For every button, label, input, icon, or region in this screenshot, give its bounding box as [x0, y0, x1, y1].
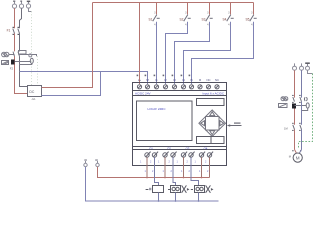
- svg-text:2: 2: [205, 161, 207, 164]
- contactor contact neutral: [300, 97, 302, 102]
- PLC nav arrow right: [220, 121, 224, 126]
- PLC output terminals: [145, 152, 213, 158]
- PLC U1 LOGO! module: [133, 78, 242, 173]
- N label speck: [20, 1, 22, 2]
- terminal X1:N: [19, 2, 23, 9]
- wire fuse to coil top: [15, 61, 31, 63]
- wire phase right lower: [294, 109, 296, 125]
- svg-text:NC: NC: [215, 78, 219, 82]
- svg-text:1: 1: [158, 161, 160, 164]
- PLC separator line 2: [133, 95, 227, 97]
- PLC display slot: [197, 99, 225, 106]
- svg-text:NC: NC: [206, 78, 210, 82]
- PLC top terminal labels: [138, 78, 219, 82]
- power supply G1 box: [28, 86, 42, 97]
- svg-text:1: 1: [163, 170, 165, 173]
- wire S4 to I4: [184, 22, 231, 84]
- PLC nav arrow left: [201, 121, 205, 126]
- pointer arrow at right: [227, 122, 242, 126]
- PLC separator line 1: [133, 90, 227, 92]
- wire PE right jog: [308, 70, 313, 73]
- wire Q4 pin1: [201, 157, 203, 177]
- power supply text: [29, 90, 34, 94]
- svg-text:2: 2: [152, 170, 154, 173]
- coil K1 ellipse: [30, 58, 33, 63]
- svg-text:I5: I5: [190, 78, 193, 82]
- svg-text:1: 1: [195, 161, 197, 164]
- PLC separator line 3: [133, 146, 227, 148]
- switch S1: [149, 3, 160, 27]
- aux icon circles: [281, 97, 288, 101]
- svg-text:1: 1: [145, 170, 147, 173]
- PE label right: [305, 62, 310, 64]
- wire Q1 pin2 to K1: [155, 157, 159, 185]
- wire coil bridge bottom: [302, 108, 308, 110]
- fuse F2 body: [11, 60, 15, 65]
- wire Q4 pin2 stub: [209, 157, 211, 177]
- wire S3 to I3: [175, 22, 210, 84]
- svg-text:2: 2: [150, 161, 152, 164]
- terminal X1:PE: [26, 2, 30, 9]
- tap terminal label specks: [84, 159, 97, 160]
- switch contact on L: [13, 52, 15, 57]
- wire N upper: [20, 8, 22, 28]
- wire phase right upper: [294, 70, 296, 97]
- switch contact on N: [18, 52, 20, 57]
- coil K ellipse right: [306, 103, 309, 108]
- wire Q2 pin2 to Y1: [173, 157, 176, 185]
- svg-text:4: 4: [154, 23, 156, 26]
- label -K1: [146, 188, 152, 190]
- junction Y2 bus: [198, 200, 200, 202]
- PLC rating text left: [135, 92, 151, 96]
- wire neutral right upper: [301, 70, 303, 97]
- wire coil bridge top: [295, 105, 307, 107]
- wire L+ drop to PLC: [139, 3, 141, 85]
- wire into motor right: [299, 150, 301, 154]
- svg-text:I3: I3: [173, 78, 176, 82]
- contactor contact phase: [293, 97, 295, 102]
- bus M output: [86, 167, 219, 201]
- PLC output labels: [149, 146, 208, 150]
- motor label: [289, 154, 291, 158]
- wire K1 to M bus: [158, 193, 160, 202]
- svg-text:1M: 1M: [284, 126, 288, 130]
- breaker contact L: [13, 29, 15, 34]
- svg-text:S3: S3: [202, 18, 206, 22]
- contact 1M1 neutral: [300, 125, 302, 130]
- svg-text:-G1: -G1: [31, 97, 36, 101]
- PE dashed 2: [37, 56, 39, 85]
- label -Y2: [191, 189, 193, 191]
- PLC outer box: [133, 83, 227, 166]
- svg-text:S5: S5: [246, 18, 250, 22]
- svg-text:M: M: [296, 155, 300, 160]
- terminal 24V tap L+: [96, 161, 99, 167]
- junction Q1 pin1: [146, 177, 148, 179]
- PE dashed down: [31, 12, 33, 86]
- overload bracket: [304, 97, 307, 101]
- wire neutral right lower: [301, 102, 303, 125]
- wire M from PSU: [42, 72, 101, 96]
- wire M rail: [20, 72, 148, 85]
- svg-text:S1: S1: [149, 18, 153, 22]
- right branch pin specks: [292, 95, 301, 151]
- valve coil Y1: [171, 186, 181, 193]
- PE dashed right: [299, 74, 313, 149]
- PLC separator line 4: [133, 149, 227, 151]
- svg-text:1: 1: [199, 170, 201, 173]
- switch S5: [246, 3, 257, 27]
- PLC nav pad square: [206, 117, 220, 131]
- PLC nav arrow up: [210, 112, 215, 116]
- svg-text:3: 3: [185, 12, 187, 15]
- svg-text:4: 4: [228, 23, 230, 26]
- wire Q3 pin2 to Y2: [191, 157, 199, 185]
- PE label: [27, 1, 30, 2]
- wire PE jog: [29, 8, 32, 11]
- PLC nav arrow down: [210, 131, 215, 135]
- PLC screen: [137, 101, 193, 141]
- junction Q4 pin1: [201, 177, 203, 179]
- PLC bottom slot: [197, 137, 225, 144]
- valve coil Y2: [195, 186, 205, 193]
- wire L1 lower: [14, 33, 16, 51]
- terminal X1:L1: [12, 2, 16, 9]
- svg-text:1: 1: [177, 161, 179, 164]
- wire S5 to I5: [192, 22, 254, 84]
- PLC nav pad diamond: [199, 110, 226, 136]
- motor M1: [293, 153, 302, 162]
- svg-text:2: 2: [207, 170, 209, 173]
- svg-text:S2: S2: [180, 18, 184, 22]
- device label box right: [279, 104, 288, 108]
- label -Y1: [168, 189, 170, 191]
- switch body rect: [19, 51, 27, 55]
- svg-text:2: 2: [187, 161, 189, 164]
- svg-text:2: 2: [169, 161, 171, 164]
- svg-text:M: M: [146, 78, 149, 82]
- valve actuator Y1: [182, 185, 190, 192]
- valve actuator Y2: [206, 185, 214, 192]
- wire N lower: [19, 33, 21, 51]
- svg-text:DC: DC: [29, 90, 34, 94]
- wire socket to L: [9, 54, 15, 56]
- breaker label: [7, 28, 11, 32]
- PLC type text: [148, 107, 167, 111]
- junction K1 bus: [158, 200, 160, 202]
- fuse right body: [292, 104, 296, 109]
- coil K1: [153, 186, 164, 193]
- power supply label: [31, 97, 36, 101]
- svg-text:4: 4: [251, 23, 253, 26]
- svg-text:2: 2: [189, 170, 191, 173]
- svg-text:I6: I6: [199, 78, 202, 82]
- contact 1M1 phase: [293, 125, 295, 130]
- switch S4: [223, 3, 234, 27]
- wire L1 upper: [14, 8, 16, 28]
- fuse label: [10, 67, 14, 71]
- wire S1 to I1: [156, 22, 158, 84]
- breaker pin specks: [13, 27, 20, 35]
- terminal X3:PE: [306, 63, 310, 70]
- bus +24V top: [93, 2, 254, 4]
- svg-text:3: 3: [251, 12, 253, 15]
- wire +24V from PSU: [42, 3, 93, 88]
- svg-text:4: 4: [207, 23, 209, 26]
- wire into motor left: [295, 150, 297, 154]
- terminal X3:2: [300, 63, 304, 70]
- PE branch circle: [29, 54, 32, 57]
- svg-text:1: 1: [140, 161, 142, 164]
- svg-text:4: 4: [185, 23, 187, 26]
- svg-text:1: 1: [181, 170, 183, 173]
- svg-text:LOGO! 24RC: LOGO! 24RC: [148, 107, 167, 111]
- PLC input terminals: [137, 85, 219, 89]
- switch S3: [202, 3, 213, 27]
- wire Y1 to M bus: [175, 193, 177, 202]
- wire row1 right: [20, 55, 37, 57]
- wire coil bottom: [20, 63, 32, 64]
- svg-text:I1: I1: [155, 78, 158, 82]
- svg-text:F1: F1: [7, 28, 11, 32]
- PLC rating text right: [202, 92, 224, 96]
- wire Q2 pin1: [164, 157, 166, 177]
- PLC output pin labels outer: [145, 170, 210, 173]
- junction Y1 bus: [175, 200, 177, 202]
- socket outlet X2: [2, 52, 9, 57]
- svg-text:I4: I4: [182, 78, 185, 82]
- L1 label speck: [13, 1, 15, 2]
- bus L+ output: [98, 167, 210, 178]
- svg-text:2: 2: [171, 170, 173, 173]
- PLC output pin labels inner: [140, 161, 207, 164]
- svg-text:M: M: [289, 154, 291, 158]
- junction Q2 pin1: [164, 177, 166, 179]
- PLC bottom slot divider: [210, 137, 212, 144]
- terminal X3:1: [293, 63, 297, 70]
- svg-text:3: 3: [228, 12, 230, 15]
- wire pin specks at PLC inputs: [137, 75, 191, 77]
- svg-text:S4: S4: [223, 18, 227, 22]
- svg-text:3: 3: [207, 12, 209, 15]
- wire Q3 pin1: [183, 157, 185, 177]
- svg-text:3: 3: [154, 12, 156, 15]
- wire Y2 to M bus: [198, 193, 200, 202]
- junction Q3 pin1: [183, 177, 185, 179]
- switch S2: [180, 3, 191, 27]
- label 1M1: [284, 126, 288, 130]
- wire S2 to I2: [166, 22, 188, 84]
- svg-text:L+: L+: [138, 78, 142, 82]
- wire Q1 pin1: [146, 157, 148, 177]
- svg-text:F2: F2: [10, 67, 14, 71]
- breaker contact N: [18, 29, 20, 34]
- device label box: [2, 61, 9, 65]
- terminal 24V tap M: [84, 161, 87, 167]
- svg-text:I2: I2: [164, 78, 167, 82]
